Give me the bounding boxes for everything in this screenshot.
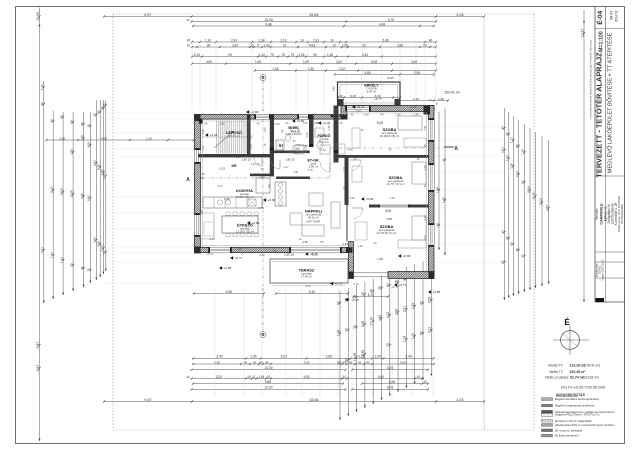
svg-text:10,00: 10,00 [264,366,272,370]
svg-text:1,43: 1,43 [40,84,44,90]
svg-text:3,08: 3,08 [510,163,514,169]
svg-text:É-04: É-04 [595,10,604,24]
svg-text:5,46: 5,46 [382,38,388,42]
svg-text:4,53: 4,53 [303,375,309,379]
svg-text:1,23: 1,23 [249,144,253,150]
svg-text:2,26: 2,26 [395,113,401,117]
svg-text:2,96: 2,96 [414,71,421,75]
svg-text:B: B [261,332,264,337]
svg-text:3,88: 3,88 [69,149,73,155]
svg-text:Hőszigetelés 5/10 cm homlokzat: Hőszigetelés 5/10 cm homlokzati dryvit r… [555,423,615,427]
svg-text:1,48: 1,48 [258,375,264,379]
svg-text:2,24: 2,24 [231,38,237,42]
svg-text:1,80: 1,80 [259,175,265,179]
svg-text:1,18: 1,18 [403,336,407,343]
svg-text:2,40: 2,40 [327,125,331,131]
svg-text:2,25: 2,25 [102,173,106,179]
svg-text:1,40: 1,40 [202,122,208,126]
svg-text:1,35: 1,35 [411,303,415,310]
svg-text:8,15: 8,15 [350,94,356,98]
svg-text:11,50(7,16) m²: 11,50(7,16) m² [235,195,253,199]
svg-text:2,51: 2,51 [501,147,505,153]
svg-text:4,36: 4,36 [201,129,205,135]
svg-text:12,27: 12,27 [580,29,584,38]
svg-text:17,36 m²: 17,36 m² [301,275,312,279]
svg-text:Fsz Pv ±0,00=103,95 mBf: Fsz Pv ±0,00=103,95 mBf [561,385,606,389]
svg-text:(109,41 m²): (109,41 m²) [584,364,600,368]
svg-text:4,30: 4,30 [342,242,348,246]
svg-text:40: 40 [510,242,514,246]
svg-text:1,50: 1,50 [407,109,413,113]
svg-text:3,08: 3,08 [349,196,355,200]
svg-text:2,33: 2,33 [313,38,319,42]
svg-text:40: 40 [423,380,427,384]
svg-text:1,06: 1,06 [375,355,382,359]
svg-text:3,13: 3,13 [219,167,225,171]
svg-text:62: 62 [336,301,340,305]
svg-text:39: 39 [59,115,63,119]
svg-text:40: 40 [186,18,190,22]
svg-text:30: 30 [501,230,505,234]
svg-text:10,00: 10,00 [265,18,274,22]
svg-text:9,88: 9,88 [265,380,272,384]
svg-text:75: 75 [291,53,295,57]
svg-text:5,16: 5,16 [312,253,318,257]
svg-text:3,46: 3,46 [405,355,412,359]
svg-text:13,77(7,27) m²: 13,77(7,27) m² [386,182,404,186]
svg-text:26: 26 [274,249,277,253]
svg-text:+5,77: +5,77 [357,105,365,109]
svg-text:2,02: 2,02 [339,67,345,71]
svg-text:25: 25 [354,157,357,161]
svg-text:+2,85: +2,85 [433,290,441,294]
svg-text:4,98: 4,98 [386,217,392,221]
svg-text:Nettó (I.Lakás):: Nettó (I.Lakás): [545,375,569,379]
svg-text:3,20: 3,20 [216,375,222,379]
svg-text:1,98: 1,98 [435,187,439,193]
svg-text:4,12: 4,12 [386,312,390,319]
svg-text:2,51: 2,51 [403,306,407,313]
svg-text:1,25: 1,25 [358,355,365,359]
svg-text:60: 60 [419,331,423,335]
svg-text:30: 30 [515,248,519,252]
svg-text:5: 5 [257,43,259,47]
svg-text:+2,00: +2,00 [323,121,331,125]
svg-text:2,02: 2,02 [336,60,342,64]
svg-text:+5,25: +5,25 [410,105,417,109]
svg-text:4,08: 4,08 [385,209,392,213]
svg-text:1,50: 1,50 [363,113,369,117]
svg-text:70: 70 [87,268,91,272]
svg-text:56: 56 [80,122,84,126]
svg-text:1,90: 1,90 [303,60,309,64]
svg-text:B: B [261,75,264,80]
svg-text:1,48: 1,48 [336,330,340,337]
svg-text:5,55 10: 5,55 10 [284,253,294,257]
svg-text:40: 40 [505,132,509,136]
svg-text:+5,80: +5,80 [252,221,260,225]
svg-text:1,80 15: 1,80 15 [285,158,295,162]
svg-text:88: 88 [265,360,269,364]
svg-text:1,98: 1,98 [255,60,261,64]
svg-text:88: 88 [239,247,242,251]
svg-text:+5,80: +5,80 [366,197,374,201]
svg-text:10: 10 [343,375,347,379]
svg-text:80: 80 [366,360,370,364]
svg-text:15: 15 [340,121,343,125]
svg-text:75: 75 [296,147,299,151]
svg-text:2,91: 2,91 [423,125,427,131]
svg-text:3,40: 3,40 [423,165,427,171]
svg-text:1,18: 1,18 [357,244,363,248]
svg-text:2,40: 2,40 [320,148,326,152]
svg-text:+2,00: +2,00 [251,110,259,114]
svg-text:3,15: 3,15 [456,13,463,17]
svg-text:2,40: 2,40 [274,122,280,126]
svg-text:SN-A3: SN-A3 [610,11,614,21]
svg-text:90: 90 [280,129,284,132]
svg-text:30: 30 [334,128,338,131]
svg-text:1,50: 1,50 [308,67,314,71]
svg-text:69: 69 [40,102,44,106]
svg-text:1,23: 1,23 [201,145,205,151]
svg-text:10: 10 [187,43,191,47]
svg-text:+5,71: +5,71 [235,256,243,260]
svg-text:2,10: 2,10 [280,38,286,42]
svg-text:40: 40 [419,301,423,305]
svg-text:10: 10 [332,43,336,47]
svg-text:1,98: 1,98 [272,67,278,71]
svg-text:30: 30 [200,210,204,213]
svg-text:5,78: 5,78 [387,386,394,390]
svg-text:80: 80 [501,260,505,264]
svg-text:+5,75: +5,75 [351,298,359,302]
svg-text:1,10: 1,10 [205,38,211,42]
svg-text:M=1:100: M=1:100 [599,31,605,52]
svg-text:+5,77: +5,77 [399,283,407,287]
svg-text:40: 40 [50,119,54,123]
svg-text:12,16: 12,16 [538,198,542,206]
svg-text:8,20: 8,20 [97,164,101,170]
svg-text:80: 80 [259,360,263,364]
svg-text:25: 25 [253,360,257,364]
svg-text:15: 15 [441,158,445,162]
svg-text:2,56: 2,56 [326,355,333,359]
svg-text:+5,75: +5,75 [392,285,399,289]
svg-text:6,04 m²: 6,04 m² [367,90,377,94]
svg-text:90: 90 [249,135,253,138]
svg-text:4,58: 4,58 [428,297,432,304]
svg-text:+5,25: +5,25 [386,76,394,80]
svg-text:5,15: 5,15 [194,53,200,57]
svg-text:1,38: 1,38 [283,150,289,154]
svg-text:86: 86 [349,360,353,364]
svg-text:88: 88 [321,240,324,244]
svg-text:4,87: 4,87 [293,170,299,174]
svg-text:8,00 m²: 8,00 m² [309,165,319,169]
svg-text:3,15: 3,15 [456,398,463,402]
svg-text:18: 18 [87,124,91,128]
svg-text:5,45: 5,45 [377,121,384,125]
svg-text:1,40: 1,40 [263,127,267,133]
svg-text:1,40: 1,40 [413,113,419,117]
svg-text:15: 15 [263,143,267,146]
svg-text:40: 40 [186,375,190,379]
svg-text:40: 40 [202,172,205,176]
svg-text:10,08: 10,08 [69,190,73,198]
svg-text:+4,35: +4,35 [210,133,218,137]
svg-text:159,41 m²: 159,41 m² [444,91,461,95]
svg-text:10: 10 [267,375,271,379]
svg-text:2,75: 2,75 [307,168,313,172]
svg-text:4,53: 4,53 [309,43,315,47]
svg-text:1,10: 1,10 [259,53,265,57]
svg-text:4,62: 4,62 [378,315,382,322]
svg-text:1,90 15: 1,90 15 [241,158,251,162]
svg-text:1,40: 1,40 [332,86,336,92]
svg-text:75: 75 [305,144,308,148]
svg-text:5: 5 [253,375,255,379]
svg-text:3,08: 3,08 [394,309,398,316]
svg-text:15: 15 [361,128,364,132]
svg-text:10: 10 [429,98,432,102]
svg-text:10,88: 10,88 [59,188,63,196]
svg-text:4,30: 4,30 [302,240,308,244]
svg-text:13,77 m²: 13,77 m² [228,134,239,138]
svg-text:3,40: 3,40 [423,215,427,221]
svg-text:2,05: 2,05 [59,136,65,140]
svg-text:1,77: 1,77 [269,141,273,147]
svg-text:4,33: 4,33 [362,53,368,57]
svg-text:4,77: 4,77 [209,237,215,241]
svg-text:4,80: 4,80 [364,71,371,75]
svg-text:10,00: 10,00 [264,386,272,390]
svg-text:3,50: 3,50 [304,360,310,364]
svg-text:90: 90 [501,126,505,130]
svg-text:60: 60 [423,184,427,187]
svg-text:1,40: 1,40 [438,97,444,101]
svg-text:3,40: 3,40 [216,355,223,359]
svg-text:70: 70 [521,254,525,258]
svg-text:+2,85: +2,85 [224,266,232,270]
svg-text:70: 70 [386,343,390,347]
svg-text:+5,75: +5,75 [335,282,343,286]
svg-text:KR: KR [231,164,237,168]
svg-text:30: 30 [207,43,211,47]
svg-text:5,10: 5,10 [305,284,311,288]
svg-text:+5,77: +5,77 [374,97,382,101]
svg-text:70: 70 [345,328,349,332]
svg-text:1,23: 1,23 [505,155,509,161]
svg-text:4,11: 4,11 [428,327,432,333]
svg-text:85: 85 [315,121,318,125]
svg-text:2,19: 2,19 [389,196,395,200]
svg-text:15,84: 15,84 [309,13,318,17]
svg-text:40: 40 [257,122,260,126]
svg-text:5,10: 5,10 [309,290,316,294]
svg-text:A: A [454,146,458,152]
svg-text:8,97: 8,97 [36,365,40,372]
svg-text:1,47: 1,47 [283,165,289,169]
svg-text:ÜAP-TÜKR.: ÜAP-TÜKR. [306,219,321,223]
svg-text:2,51: 2,51 [545,205,549,211]
svg-text:MEGLÉVŐ LAKÓÉPÜLET BŐVÍTÉSE +: MEGLÉVŐ LAKÓÉPÜLET BŐVÍTÉSE + TT ÁTÉPÍTÉ… [607,32,614,173]
svg-text:4,50: 4,50 [206,60,212,64]
svg-text:1,40: 1,40 [235,155,241,159]
svg-text:4,90: 4,90 [226,290,233,294]
svg-text:78: 78 [353,325,357,329]
svg-text:4,75: 4,75 [258,206,264,210]
svg-text:4,98: 4,98 [411,60,417,64]
svg-text:4,08: 4,08 [259,253,265,257]
svg-text:15,84: 15,84 [309,398,318,402]
svg-text:19,38(11,05) m²: 19,38(11,05) m² [380,134,400,138]
svg-text:1,38: 1,38 [327,53,333,57]
svg-text:10,88: 10,88 [526,186,530,194]
svg-text:26: 26 [361,292,365,296]
svg-text:60: 60 [521,180,525,184]
svg-text:15: 15 [261,167,264,171]
svg-text:Meglévő megmaradó épületrész: Meglévő megmaradó épületrész [555,404,596,408]
svg-text:+5,80: +5,80 [403,254,411,258]
svg-text:10: 10 [362,43,366,47]
svg-text:100,45 m²: 100,45 m² [570,370,587,374]
svg-text:10: 10 [247,375,251,379]
svg-text:1,50: 1,50 [342,43,348,47]
svg-text:2024.02.: 2024.02. [615,9,619,22]
svg-text:1,35: 1,35 [250,355,257,359]
svg-text:12,03(7,92) m²: 12,03(7,92) m² [236,230,254,234]
svg-text:30: 30 [80,266,84,270]
svg-text:75: 75 [435,102,439,105]
svg-text:4,98: 4,98 [379,22,386,26]
svg-text:1,43: 1,43 [263,43,269,47]
svg-text:5,78: 5,78 [387,366,394,370]
svg-text:40: 40 [435,223,439,227]
svg-text:Tervező:: Tervező: [595,208,599,220]
svg-text:1,38: 1,38 [258,38,264,42]
svg-text:1,23: 1,23 [510,137,514,143]
svg-text:1,98: 1,98 [377,257,383,261]
svg-text:10: 10 [330,38,334,42]
svg-text:1,80: 1,80 [224,197,230,201]
svg-text:10: 10 [283,43,287,47]
svg-text:É: É [564,318,570,327]
svg-text:10: 10 [299,237,302,241]
svg-text:12,09: 12,09 [36,12,40,21]
svg-text:40: 40 [505,236,509,240]
svg-text:3,13: 3,13 [217,184,223,188]
svg-text:60: 60 [293,139,296,143]
svg-text:90: 90 [267,184,271,187]
svg-text:90: 90 [351,113,354,117]
svg-text:HT: HT [279,144,285,148]
svg-text:63: 63 [343,360,347,364]
svg-text:10: 10 [300,38,304,42]
svg-text:40: 40 [417,375,421,379]
svg-text:9,57: 9,57 [144,398,151,402]
svg-text:8,45: 8,45 [87,195,91,201]
svg-text:9,97: 9,97 [144,13,151,17]
svg-text:1,06: 1,06 [298,53,304,57]
svg-text:60: 60 [423,144,427,147]
svg-text:5,08: 5,08 [371,60,377,64]
svg-text:15: 15 [417,157,420,161]
svg-text:60: 60 [269,128,273,131]
svg-text:Meglévő bontásra kerülő épület: Meglévő bontásra kerülő épületrész [555,397,600,401]
svg-text:Nettó TT:: Nettó TT: [549,370,563,374]
svg-text:ANYAGKIOSZTÁS: ANYAGKIOSZTÁS [556,392,586,397]
svg-text:23,75(18,17) m²: 23,75(18,17) m² [377,231,397,235]
svg-text:2,31: 2,31 [515,171,519,177]
svg-text:1,18: 1,18 [521,149,525,155]
svg-text:TERVEZETT - TETŐTÉR ALAPRAJZ: TERVEZETT - TETŐTÉR ALAPRAJZ [595,52,604,178]
svg-text:2,21: 2,21 [40,247,44,253]
svg-text:5,45: 5,45 [347,148,353,152]
svg-text:3,20: 3,20 [232,43,238,47]
svg-text:90: 90 [381,113,384,117]
svg-text:1,40 15: 1,40 15 [251,162,260,166]
svg-text:3,08: 3,08 [400,360,406,364]
svg-text:5,76: 5,76 [388,18,395,22]
svg-text:2,25: 2,25 [146,136,152,140]
svg-text:9,97: 9,97 [36,342,40,349]
svg-text:A tervdokumentáció összes fűző: A tervdokumentáció összes fűződő szerzői… [589,40,593,120]
svg-text:90: 90 [342,186,346,189]
svg-text:(vegyes) P30;2Therm / IP30 Pro: (vegyes) P30;2Therm / IP30 Prot.T.) [555,413,600,417]
svg-text:4,08: 4,08 [101,136,107,140]
svg-text:1,23: 1,23 [305,132,309,138]
svg-text:06-70-2522000: 06-70-2522000 [620,204,624,224]
svg-text:80: 80 [515,144,519,148]
svg-text:5,78: 5,78 [353,282,359,286]
svg-text:90: 90 [313,53,317,57]
svg-text:2,05: 2,05 [423,235,427,241]
svg-text:A: A [186,177,190,183]
svg-text:+5,80: +5,80 [268,198,276,202]
svg-text:11,48: 11,48 [532,192,536,200]
svg-text:6,12 m²: 6,12 m² [319,140,329,144]
svg-text:25: 25 [389,148,392,152]
svg-text:90: 90 [286,121,289,125]
svg-text:1,01: 1,01 [100,245,104,251]
svg-text:1,20: 1,20 [411,333,415,340]
svg-text:40: 40 [187,38,191,42]
svg-text:1,10: 1,10 [334,141,338,147]
svg-text:Fa födémszerkezet: Fa födémszerkezet [555,434,579,438]
svg-text:75: 75 [270,53,274,57]
svg-text:5,78: 5,78 [368,293,374,297]
svg-text:80: 80 [244,360,248,364]
svg-text:78: 78 [378,286,382,290]
svg-text:12,16: 12,16 [370,317,374,325]
svg-text:86: 86 [69,120,73,124]
svg-text:3,08: 3,08 [361,321,365,328]
svg-text:Bruttó TT:: Bruttó TT: [549,364,564,368]
svg-text:40: 40 [374,241,377,245]
svg-text:2,05: 2,05 [219,122,225,126]
svg-text:Vb. koszorú, áthidalás: Vb. koszorú, áthidalás [555,428,583,432]
svg-text:1,50: 1,50 [302,121,308,125]
svg-text:1,65: 1,65 [441,197,445,203]
svg-text:2,19: 2,19 [342,167,346,173]
svg-text:11,56: 11,56 [50,186,54,194]
svg-text:75: 75 [281,53,285,57]
svg-text:+5,80: +5,80 [335,114,343,118]
svg-text:10,46: 10,46 [353,353,357,361]
svg-text:40: 40 [69,263,73,267]
svg-text:26: 26 [358,360,362,364]
